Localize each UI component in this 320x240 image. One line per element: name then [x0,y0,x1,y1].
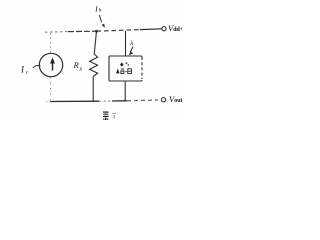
svg-text:λ: λ [129,40,133,47]
svg-text:x: x [79,67,83,73]
svg-text:I: I [20,65,25,75]
svg-text:h: h [99,8,102,14]
svg-text:r: r [26,70,29,76]
svg-text:I: I [94,6,98,14]
svg-text:R: R [73,60,80,70]
